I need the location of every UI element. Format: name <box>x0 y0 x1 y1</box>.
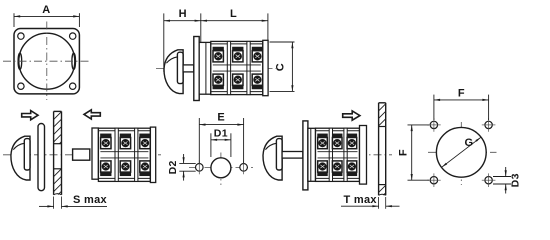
front housing step line <box>205 42 207 94</box>
rear-mount housing step line <box>310 128 312 181</box>
rear-mount terminal block column 1 bottom screw <box>318 161 328 176</box>
dimension T max <box>341 194 400 209</box>
svg-text:S max: S max <box>73 194 107 206</box>
rear-mount rear mounting flange <box>360 126 367 185</box>
rear-mount body top cap line <box>316 130 360 132</box>
svg-text:D2: D2 <box>167 160 179 174</box>
exploded clamp rail upper <box>100 151 148 153</box>
cam stage divider 1 <box>227 41 230 94</box>
svg-text:F: F <box>458 87 465 99</box>
exploded terminal block column 2 bottom screw <box>120 161 130 176</box>
exploded clamp rail lower <box>100 157 148 159</box>
switch shaft bushing <box>73 149 90 160</box>
body bottom cap line <box>211 91 263 93</box>
exploded cam stage divider 2 <box>135 128 138 181</box>
dimension D1 <box>211 127 231 157</box>
right anti-rotation flat <box>72 53 76 69</box>
svg-text:L: L <box>230 8 237 20</box>
rear-mount terminal block column 2 top screw <box>332 134 342 149</box>
shaft hole circle D1 <box>211 158 231 178</box>
left hole vertical tick <box>198 160 200 174</box>
svg-text:T max: T max <box>344 194 378 206</box>
terminal block column 2 bottom screw <box>233 74 243 89</box>
exploded view centerline <box>3 154 161 156</box>
exploded switch body outline <box>98 128 150 181</box>
assembly direction arrow left <box>84 110 100 119</box>
dimension A <box>14 4 79 27</box>
exploded terminal block column 2 top screw <box>120 134 130 149</box>
clamp rail lower <box>213 70 261 72</box>
drilling template vertical centerline <box>220 153 222 186</box>
rear-mount handle knob <box>263 136 282 180</box>
terminal block column 1 bottom screw <box>213 74 223 89</box>
pattern hole bottom-right <box>482 173 496 187</box>
rear-mount shaft <box>282 152 303 159</box>
terminal block column 3 top screw <box>252 47 262 62</box>
flange fixing hole 4 <box>70 83 76 89</box>
side view centerline <box>156 67 276 69</box>
front view horizontal centerline <box>3 60 91 62</box>
exploded body bottom cap line <box>98 177 150 179</box>
rear-mount view centerline <box>265 154 392 156</box>
exploded terminal block column 3 bottom screw <box>140 161 150 176</box>
rear body left section <box>92 128 98 179</box>
rear mounting panel section <box>356 103 432 196</box>
dimension D2 <box>167 154 196 181</box>
rear-mount terminal block column 3 bottom screw <box>347 161 357 176</box>
front housing <box>199 42 211 94</box>
body top cap line <box>211 43 263 45</box>
exploded terminal block column 1 top screw <box>101 134 111 149</box>
pattern hole top-right <box>482 118 496 132</box>
pattern hole top-left <box>427 118 441 132</box>
flange fixing hole 3 <box>18 83 24 89</box>
pattern horizontal centerline <box>428 151 497 153</box>
switch body outline <box>211 41 263 94</box>
dimension C <box>270 42 295 91</box>
flange fixing hole 1 <box>18 33 24 39</box>
exploded terminal block column 3 top screw <box>140 134 150 149</box>
rear-mount clamp rail upper <box>318 151 358 153</box>
svg-text:C: C <box>275 63 287 71</box>
handle knob <box>164 50 183 94</box>
dimension D3 <box>493 167 522 194</box>
left anti-rotation flat <box>18 53 22 69</box>
svg-text:H: H <box>179 8 187 20</box>
svg-text:A: A <box>42 4 50 16</box>
rear-mount clamp rail lower <box>318 157 358 159</box>
cam stage divider 2 <box>247 41 250 94</box>
dimension L <box>201 8 268 43</box>
svg-text:D1: D1 <box>214 127 228 139</box>
exploded handle knob <box>11 136 30 180</box>
front view vertical centerline <box>46 22 48 101</box>
pattern vertical centerline <box>460 122 462 185</box>
rear-mount body bottom cap line <box>316 177 360 179</box>
assembly direction arrow right <box>22 111 38 120</box>
dimension S max <box>39 194 108 209</box>
dimension H <box>164 8 201 72</box>
rear-mount terminal block column 1 top screw <box>318 134 328 149</box>
rear mounting flange <box>263 40 268 95</box>
rear body circle G <box>436 127 486 177</box>
front collar circle <box>19 33 75 89</box>
right fixing hole <box>240 164 248 172</box>
front view square flange plate <box>14 29 79 94</box>
dimension F top <box>434 87 489 120</box>
front mounting panel section <box>22 111 122 194</box>
exploded terminal block column 1 bottom screw <box>101 161 111 176</box>
handle shaft <box>183 65 194 72</box>
exploded rear mounting flange <box>150 127 155 182</box>
rear-mount cam stage divider 2 <box>344 128 347 181</box>
pattern hole bottom-left <box>427 173 441 187</box>
svg-text:G: G <box>465 137 474 149</box>
rear-mount front plate <box>303 121 308 190</box>
rear-mount terminal block column 3 top screw <box>347 134 357 149</box>
svg-text:D3: D3 <box>510 173 522 187</box>
exploded cam stage divider 1 <box>115 128 118 181</box>
insertion direction arrow <box>343 111 360 120</box>
drilling template horizontal centerline <box>189 167 253 169</box>
dimension F left <box>397 125 429 180</box>
svg-text:F: F <box>397 149 409 156</box>
exploded body top cap line <box>98 130 150 132</box>
front mounting plate <box>194 37 199 101</box>
dimension E <box>199 112 243 164</box>
flange fixing hole 2 <box>70 33 76 39</box>
rear-mount cam stage divider 1 <box>329 128 332 181</box>
rear-mount front housing <box>308 128 316 181</box>
dimension G diagonal <box>442 137 481 167</box>
rear-mount switch body outline <box>316 128 360 181</box>
rear-mount terminal block column 2 bottom screw <box>332 161 342 176</box>
terminal block column 3 bottom screw <box>252 74 262 89</box>
clamp rail upper <box>213 64 261 66</box>
right hole vertical tick <box>243 160 245 174</box>
terminal block column 2 top screw <box>233 47 243 62</box>
escutcheon plate <box>38 124 45 191</box>
svg-text:E: E <box>217 112 225 124</box>
left fixing hole D2 <box>196 164 204 172</box>
terminal block column 1 top screw <box>213 47 223 62</box>
